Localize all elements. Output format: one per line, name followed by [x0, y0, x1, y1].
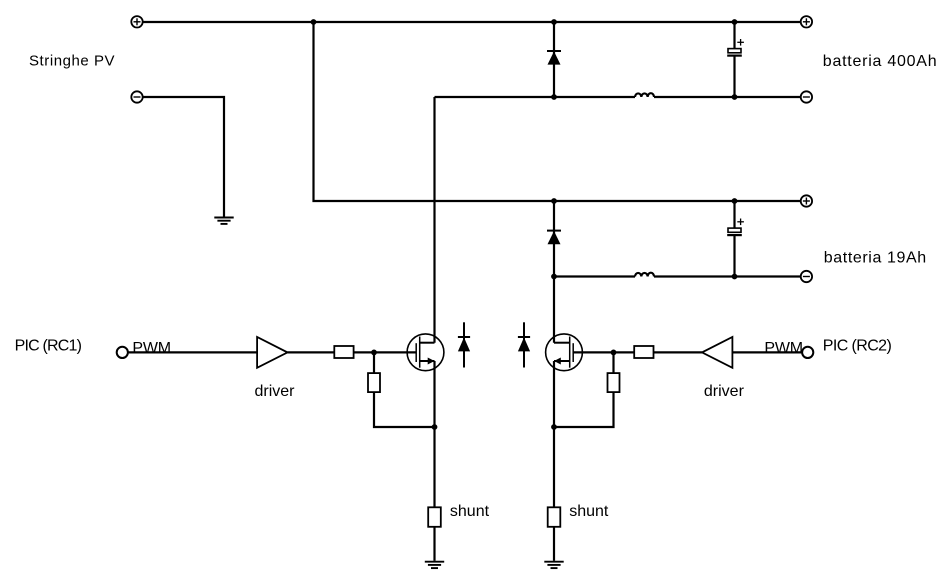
- wire node A vertical (PV rail to MOSFET Q1 drain): [433, 97, 435, 343]
- terminal battery 19Ah -: [801, 271, 812, 282]
- junction top rail / PV branch: [311, 19, 317, 25]
- diode D1: [547, 51, 561, 65]
- svg-text:PIC (RC2): PIC (RC2): [823, 338, 892, 355]
- svg-text:driver: driver: [704, 383, 745, 400]
- svg-text:shunt: shunt: [569, 503, 609, 520]
- junction top rail / diode D1: [551, 19, 557, 25]
- wire capacitor C2 top lead: [733, 201, 735, 228]
- resistor shunt 2: [548, 507, 561, 527]
- inductor L2: [635, 273, 654, 277]
- junction top rail / capacitor C1: [732, 19, 738, 25]
- wire capacitor C2 bottom lead: [733, 235, 735, 276]
- junction 19Ah positive rail / diode D2: [551, 198, 557, 204]
- junction 400Ah negative rail / capacitor C1: [732, 94, 738, 100]
- svg-text:PIC (RC1): PIC (RC1): [15, 338, 82, 355]
- svg-text:driver: driver: [255, 383, 296, 400]
- wire gate resistor to MOSFET Q1 gate: [354, 351, 417, 353]
- ground (shunt 2): [544, 562, 563, 568]
- svg-text:batteria 400Ah: batteria 400Ah: [823, 53, 938, 70]
- junction Q1 source / pulldown return: [432, 424, 438, 430]
- capacitor C1 (polarized): [727, 39, 744, 56]
- junction Q2 source / pulldown return: [551, 424, 557, 430]
- wire PWM input right (PIC RC2 to driver): [732, 351, 802, 353]
- wire PV+ top rail: [142, 21, 801, 23]
- terminal PV-: [131, 91, 142, 102]
- wire PV+ branch to battery 19Ah positive rail: [314, 22, 802, 201]
- wire diode D2 branch: [553, 201, 555, 277]
- svg-text:PWM: PWM: [132, 340, 171, 357]
- wire PV- to ground: [142, 97, 224, 217]
- svg-text:PWM: PWM: [764, 340, 803, 357]
- wire MOSFET Q2 source down to shunt: [553, 361, 555, 507]
- transistor Q1 (n-MOSFET): [407, 334, 444, 371]
- wire diode D1 branch: [553, 22, 555, 97]
- wire battery 19Ah negative rail (right part): [654, 275, 801, 277]
- wire pulldown resistor Rd1 to source node: [374, 392, 435, 427]
- wire MOSFET Q1 source down to shunt: [433, 361, 435, 507]
- resistor Rd2 (gate pulldown): [608, 373, 620, 392]
- wire driver U2 output to gate resistor: [654, 351, 703, 353]
- resistor Rd1 (gate pulldown): [368, 373, 380, 392]
- wire shunt 1 to ground: [433, 527, 435, 561]
- resistor shunt 1: [428, 507, 441, 527]
- ground (shunt 1): [425, 562, 444, 568]
- transistor Q2 (n-MOSFET, mirrored): [546, 334, 583, 371]
- wire driver U1 output to gate resistor: [288, 351, 335, 353]
- terminal PIC RC2: [802, 347, 813, 358]
- buffer U2 driver (mirrored): [702, 337, 732, 368]
- wire pulldown resistor Rd1 top lead: [373, 352, 375, 373]
- junction gate node Q1 / pulldown: [371, 350, 377, 356]
- wire battery 19Ah negative rail (left part): [554, 275, 635, 277]
- junction 400Ah negative rail / diode D1: [551, 94, 557, 100]
- resistor Rg1 (gate series): [334, 346, 353, 358]
- svg-text:Stringhe PV: Stringhe PV: [29, 52, 115, 69]
- wire battery 400Ah negative rail (left part): [435, 96, 636, 98]
- resistor Rg2 (gate series): [634, 346, 653, 358]
- terminal PIC RC1: [117, 347, 128, 358]
- terminal battery 19Ah +: [801, 195, 812, 206]
- wire battery 400Ah negative rail (right part): [654, 96, 801, 98]
- wire shunt 2 to ground: [553, 527, 555, 561]
- wire capacitor C1 top lead: [733, 22, 735, 49]
- diode D4 (body diode of Q2): [518, 322, 530, 367]
- terminal PV+: [131, 16, 142, 27]
- wire capacitor C1 bottom lead: [733, 56, 735, 97]
- terminal battery 400Ah -: [801, 91, 812, 102]
- terminal battery 400Ah +: [801, 16, 812, 27]
- wire pulldown resistor Rd2 to source node: [554, 392, 614, 427]
- buffer U1 driver: [257, 337, 287, 368]
- diode D2: [547, 231, 561, 245]
- wire PWM input left (PIC RC1 to driver): [128, 351, 257, 353]
- junction gate node Q2 / pulldown: [611, 350, 617, 356]
- junction 19Ah negative rail / capacitor C2 bottom: [732, 274, 738, 280]
- junction 19Ah negative rail / Q2 drain: [551, 274, 557, 280]
- wire pulldown resistor Rd2 top lead: [612, 352, 614, 373]
- wire node B vertical (battery 19 rail to MOSFET Q2 drain): [553, 277, 555, 343]
- inductor L1: [635, 93, 654, 97]
- svg-text:shunt: shunt: [450, 503, 490, 520]
- junction 19Ah positive rail / capacitor C2: [732, 198, 738, 204]
- capacitor C2 (polarized): [727, 219, 744, 236]
- ground (Stringhe PV negative): [214, 218, 233, 224]
- diode D3 (body diode of Q1): [458, 322, 470, 367]
- svg-text:batteria 19Ah: batteria 19Ah: [824, 249, 927, 266]
- wire gate resistor to MOSFET Q2 gate: [573, 351, 634, 353]
